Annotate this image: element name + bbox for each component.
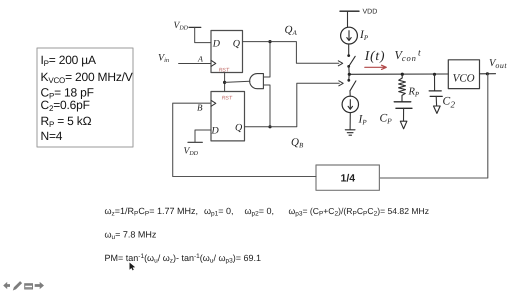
capacitor CP — [394, 102, 412, 109]
ground (C2, open triangle) — [434, 106, 441, 113]
node C2 branch — [433, 73, 436, 76]
svg-text:RST: RST — [222, 95, 233, 101]
svg-text:QA: QA — [285, 24, 298, 37]
wire I1 to switch S1 — [348, 44, 350, 55]
svg-text:RP: RP — [408, 87, 420, 99]
toolbar icon: next arrow — [35, 282, 44, 289]
clock pin (FF_A) — [211, 60, 216, 66]
svg-text:Q: Q — [233, 39, 241, 50]
VDD supply (charge pump) — [340, 10, 359, 12]
svg-text:IP: IP — [359, 29, 369, 42]
wire VDD to current source I1 — [347, 11, 349, 27]
current source I2 (IP down) — [342, 96, 358, 112]
AND gate U1 (reset gate, pointing left) — [250, 74, 264, 89]
wire VDD to D of FF_A — [195, 27, 211, 42]
svg-text:C2: C2 — [443, 96, 456, 110]
resistor RP — [399, 74, 406, 102]
ground (CP, open triangle) — [400, 121, 407, 129]
current source I1 (IP up) — [341, 27, 358, 44]
svg-text:Q: Q — [235, 123, 243, 134]
wire Vin to clock of FF_A — [179, 63, 211, 65]
toolbar icon: slide panel — [24, 283, 33, 289]
divider 1/4 box — [316, 165, 379, 190]
node S1 top — [347, 54, 350, 57]
node QB tap — [268, 125, 271, 128]
svg-text:Vout: Vout — [489, 58, 507, 70]
wire S2 to current source I2 — [349, 91, 351, 96]
svg-text:ωz=1/RPCP= 1.77 MHz,: ωz=1/RPCP= 1.77 MHz, — [105, 206, 199, 218]
svg-text:IP: IP — [358, 114, 368, 127]
svg-text:PM= tan-1(ωu/ ωz)- tan-1(ωu/ ω: PM= tan-1(ωu/ ωz)- tan-1(ωu/ ωp3)= 69.1 — [105, 253, 262, 265]
wire I2 to ground — [349, 113, 351, 130]
svg-text:RP = 5 kΩ: RP = 5 kΩ — [41, 114, 92, 129]
svg-text:A: A — [197, 55, 203, 64]
toolbar icon: pen — [13, 281, 22, 290]
switch S1 blade — [349, 56, 355, 66]
wire feedback Vout to divider — [379, 74, 487, 178]
toolbar icon: previous arrow — [3, 282, 10, 289]
wire AND input from QA — [263, 42, 270, 77]
node S2 top — [347, 79, 350, 82]
node Vout — [486, 72, 489, 75]
node RST junction — [223, 81, 226, 84]
svg-text:IP= 200 µA: IP= 200 µA — [41, 53, 96, 68]
svg-text:I(t): I(t) — [364, 48, 385, 63]
svg-text:ωp2= 0,: ωp2= 0, — [245, 206, 275, 218]
svg-text:ωp1= 0,: ωp1= 0, — [204, 206, 234, 218]
node QA tap — [268, 40, 271, 43]
svg-text:1/4: 1/4 — [341, 172, 356, 184]
svg-text:N=4: N=4 — [41, 129, 63, 143]
svg-text:VDD: VDD — [363, 9, 378, 16]
wire QA from FF_A to UP switch control — [243, 42, 339, 64]
wire Vcont to switch S2 — [348, 74, 350, 80]
wire CP to ground — [403, 108, 405, 121]
wire S1 to Vcont node — [348, 66, 350, 74]
arrowhead QB — [339, 81, 343, 86]
arrow I(t) direction (red) — [365, 65, 387, 69]
node CP branch — [401, 73, 404, 76]
formula line 1 — [105, 206, 430, 265]
wire AND output to RST node — [225, 81, 250, 82]
parameter box — [37, 48, 133, 147]
svg-text:VCO: VCO — [453, 73, 475, 85]
wire C2 branch — [434, 74, 436, 90]
svg-text:CP: CP — [380, 113, 393, 126]
flip-flop FF_A — [211, 31, 243, 73]
mouse cursor — [130, 263, 136, 271]
node Vcont — [348, 73, 351, 76]
wire VDD to D of FF_B — [195, 130, 211, 142]
wire Vcont rail — [349, 73, 448, 75]
capacitor C2 — [429, 91, 442, 97]
svg-text:VDD: VDD — [184, 147, 199, 158]
svg-text:VDD: VDD — [174, 21, 189, 32]
svg-text:ωp3= (CP+C2)/(RPCPC2)= 54.82 M: ωp3= (CP+C2)/(RPCPC2)= 54.82 MHz — [289, 206, 430, 218]
wire AND input from QB — [263, 85, 270, 127]
svg-text:B: B — [197, 103, 203, 113]
node S1 bottom — [347, 65, 350, 68]
svg-text:C2=0.6pF: C2=0.6pF — [41, 98, 90, 113]
ground (I2) — [345, 130, 355, 135]
svg-text:Vin: Vin — [158, 53, 169, 65]
clock pin (FF_B) — [211, 100, 216, 106]
arrowhead QA — [338, 61, 342, 66]
svg-text:ωu= 7.8 MHz: ωu= 7.8 MHz — [105, 230, 157, 242]
svg-text:D: D — [211, 126, 220, 137]
switch S2 blade — [350, 81, 356, 91]
VCO U2 — [448, 60, 479, 89]
svg-text:QB: QB — [291, 137, 304, 150]
wire QB from FF_B to DOWN switch control — [245, 83, 340, 127]
wire RST bus between flip-flops — [224, 73, 226, 92]
svg-text:D: D — [212, 39, 221, 50]
wire C2 to ground — [435, 96, 437, 105]
flip-flop FF_B — [211, 92, 245, 141]
wire VCO output — [480, 73, 496, 75]
svg-text:Vcont: Vcont — [395, 48, 422, 63]
wire divider to FF_B clock — [173, 103, 316, 176]
